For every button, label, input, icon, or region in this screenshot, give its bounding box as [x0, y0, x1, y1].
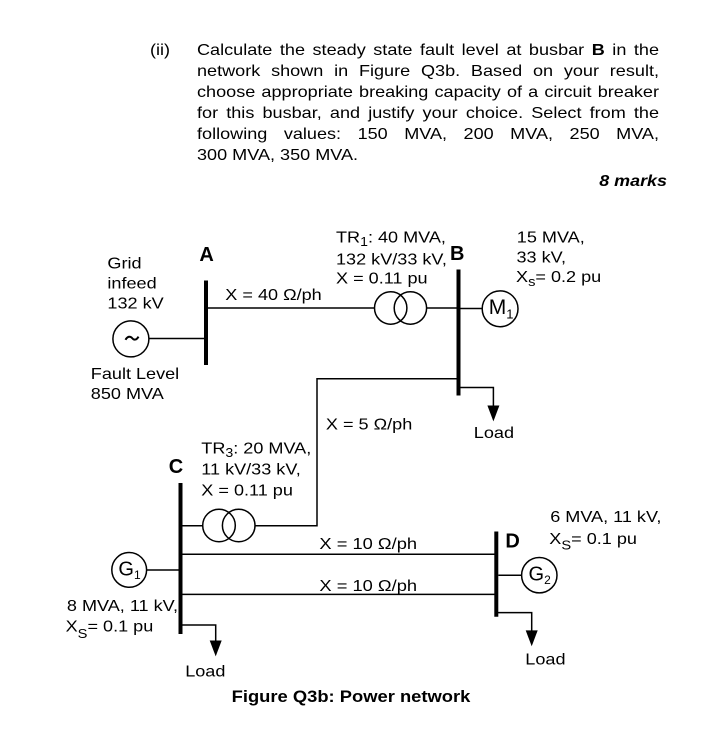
- svg-text:XS= 0.1 pu: XS= 0.1 pu: [549, 530, 637, 552]
- wire TR1 to busbar B: [427, 307, 457, 309]
- wire line C to D lower (X = 10 ohm/ph): [183, 593, 495, 595]
- svg-text:Load: Load: [474, 424, 514, 442]
- label G1 ratings: [66, 597, 178, 641]
- wire busbar B load branch: [459, 388, 494, 408]
- svg-text:11 kV/33 kV,: 11 kV/33 kV,: [201, 460, 300, 478]
- generator G1: [112, 553, 147, 588]
- svg-text:Load: Load: [525, 650, 565, 668]
- svg-text:X = 40 Ω/ph: X = 40 Ω/ph: [225, 286, 321, 304]
- svg-text:Grid: Grid: [107, 254, 141, 272]
- motor M1: [482, 291, 518, 327]
- wire grid source to busbar A: [149, 338, 205, 340]
- arrow load at B: [487, 406, 499, 422]
- svg-text:15 MVA,: 15 MVA,: [517, 229, 585, 247]
- svg-text:XS= 0.1 pu: XS= 0.1 pu: [66, 617, 154, 640]
- label Fault Level 850 MVA: [91, 365, 179, 403]
- svg-text:X = 0.11 pu: X = 0.11 pu: [201, 481, 293, 499]
- svg-text:850 MVA: 850 MVA: [91, 385, 165, 403]
- transformer TR1: [375, 292, 427, 324]
- svg-text:infeed: infeed: [107, 274, 156, 292]
- svg-text:D: D: [505, 531, 519, 553]
- svg-text:B: B: [450, 243, 464, 265]
- wire TR3 to busbar C: [182, 525, 203, 527]
- transformer TR3: [203, 509, 255, 542]
- svg-text:X = 5 Ω/ph: X = 5 Ω/ph: [326, 415, 412, 433]
- svg-text:6 MVA, 11 kV,: 6 MVA, 11 kV,: [550, 508, 661, 526]
- svg-text:TR1: 40 MVA,: TR1: 40 MVA,: [336, 228, 446, 248]
- svg-text:X = 0.11 pu: X = 0.11 pu: [336, 269, 428, 287]
- source grid infeed generator: [113, 321, 149, 357]
- busbar C: [179, 483, 183, 634]
- busbar B: [457, 270, 461, 396]
- wire busbar B to motor M1: [461, 308, 483, 310]
- wire busbar D load branch: [496, 613, 531, 632]
- svg-text:132 kV: 132 kV: [107, 295, 164, 313]
- svg-text:C: C: [169, 456, 183, 478]
- svg-text:X = 10 Ω/ph: X = 10 Ω/ph: [319, 576, 417, 595]
- svg-text:8 MVA, 11 kV,: 8 MVA, 11 kV,: [67, 597, 178, 615]
- svg-text:Fault Level: Fault Level: [91, 365, 179, 383]
- busbar A: [204, 281, 208, 366]
- svg-text:Xs= 0.2 pu: Xs= 0.2 pu: [516, 268, 601, 289]
- svg-text:G2: G2: [529, 564, 552, 588]
- svg-text:132 kV/33 kV,: 132 kV/33 kV,: [336, 250, 447, 268]
- svg-text:M1: M1: [489, 296, 514, 322]
- label TR1 ratings: [336, 228, 447, 287]
- question header text: [150, 40, 170, 61]
- svg-text:TR3: 20 MVA,: TR3: 20 MVA,: [201, 439, 311, 459]
- svg-text:A: A: [199, 244, 213, 266]
- wire line A to TR1: [208, 307, 375, 309]
- svg-text:X = 10 Ω/ph: X = 10 Ω/ph: [319, 534, 417, 553]
- wire busbar D to G2: [498, 574, 521, 576]
- label Grid infeed 132 kV: [107, 254, 164, 312]
- svg-text:Load: Load: [185, 662, 225, 680]
- svg-text:33 kV,: 33 kV,: [517, 248, 567, 266]
- arrow load at C: [210, 641, 222, 657]
- wire line C to D upper (X = 10 ohm/ph): [183, 553, 495, 555]
- arrow load at D: [526, 630, 538, 646]
- svg-text:G1: G1: [118, 558, 141, 582]
- label M1 ratings: [516, 229, 601, 289]
- wire line B to TR3 (X = 5 ohm/ph): [255, 379, 457, 526]
- busbar D: [494, 532, 498, 617]
- wire busbar C load branch: [181, 625, 216, 642]
- figure caption: [0, 687, 702, 707]
- label G2 ratings: [549, 508, 661, 552]
- wire G1 to busbar C: [147, 569, 179, 571]
- label TR3 ratings: [201, 439, 311, 499]
- generator G2: [522, 558, 557, 593]
